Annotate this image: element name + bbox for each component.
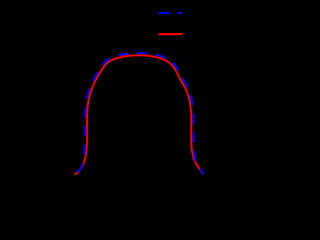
- legend blue dashed sample: [159, 12, 182, 14]
- blue dashed curve: [75, 53, 204, 175]
- red solid curve: [75, 55, 204, 174]
- legend red solid sample: [159, 33, 183, 35]
